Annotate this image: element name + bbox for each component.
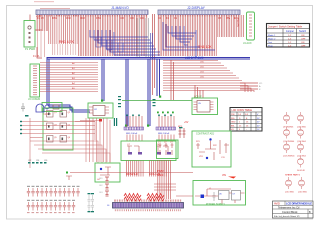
svg-text:LCD CONN TABLE: LCD CONN TABLE (232, 109, 253, 112)
net labels for stubs (259, 83, 262, 91)
svg-text:Q12 3904: Q12 3904 (297, 141, 307, 143)
annotation above frame (faint) (34, 1, 54, 2)
svg-text:RN3: RN3 (80, 17, 85, 20)
svg-text:OFF: OFF (301, 38, 306, 40)
connector P1 (top left, green) (24, 21, 35, 48)
resistor RP3 pair (left of contrast box) (179, 128, 186, 138)
wire (red horizontals into opto bank) (21, 122, 95, 138)
spare transistor Q13 (284, 141, 290, 153)
svg-text:Mode 1: Mode 1 (268, 35, 276, 37)
wire (red vertical between headers) (153, 14, 155, 95)
power indicator circuit (green box small, left) (157, 140, 179, 159)
svg-text:P1 PWR: P1 PWR (25, 47, 35, 51)
wire fan from U2 down to keypad interface (80, 118, 110, 162)
resistor network RN5 (purple bar) (124, 127, 144, 135)
capacitor C32 (213, 192, 216, 201)
wire (P1 to right) (30, 15, 42, 59)
svg-text:+12V: +12V (36, 15, 42, 18)
net labels on LCD fan (200, 62, 205, 79)
svg-text:J1-MAIN I/O: J1-MAIN I/O (111, 6, 129, 10)
data bus (blue nested routing left group) (90, 30, 160, 55)
svg-text:K1 RLY: K1 RLY (43, 113, 51, 116)
junction (bright red) (99, 119, 102, 122)
svg-text:SPARE PARTS: SPARE PARTS (285, 174, 300, 177)
bus risers to lower section (47, 57, 160, 126)
wires inside (195, 189, 245, 204)
electrolytic capacitors CE1-CE3 (stacked) (99, 177, 109, 196)
svg-text:POWER SUPPLY: POWER SUPPLY (206, 203, 225, 206)
data bus (blue nested routing right group) (163, 22, 215, 58)
capacitor ticks above RN fans (teal) (126, 115, 172, 117)
sparse wires left of J1 fan (38, 31, 45, 57)
net name labels on J3 bundle (72, 62, 75, 90)
svg-text:RN2: RN2 (66, 17, 71, 20)
svg-text:RN3 4.7K: RN3 4.7K (59, 40, 74, 44)
main horizontal bus wires (47, 57, 250, 59)
optocoupler bank U3 (green box 2x3 grid) (43, 108, 73, 150)
svg-text:J3 CON20: J3 CON20 (28, 97, 41, 101)
svg-text:KEYPAD: KEYPAD (237, 17, 240, 27)
wire fan from J2 area to LCD (horizontal red, staircase) (163, 61, 254, 93)
svg-text:File: lcd_drv.sch Sheet 1/1: File: lcd_drv.sch Sheet 1/1 (274, 215, 300, 218)
connector J3 (left, green 20-pin) (30, 64, 40, 97)
regulator U7 (232, 191, 241, 201)
svg-text:J2-DISPLAY: J2-DISPLAY (187, 6, 206, 10)
wire bundle from J3 (horizontal red lines) (40, 61, 98, 93)
svg-text:Q14 3904: Q14 3904 (297, 156, 307, 158)
svg-text:Prog: Prog (268, 44, 273, 47)
svg-text:LCD DRIVER MODULE: LCD DRIVER MODULE (286, 202, 312, 206)
svg-text:10K: 10K (140, 17, 145, 20)
svg-text:GND: GND (231, 122, 236, 124)
diode D4 (blue) (201, 195, 205, 199)
capacitor C20 (gray, left) (21, 103, 25, 112)
wire stubs right of LCD area (240, 83, 258, 89)
svg-text:Jumper / Switch Setting Table: Jumper / Switch Setting Table (268, 24, 303, 28)
wire risers into LCD module (171, 60, 203, 100)
svg-text:Q9 2N3906: Q9 2N3906 (283, 127, 294, 129)
keypad interface (green box bottom mid-left) (95, 163, 120, 182)
connector J1 header strip (36, 10, 148, 15)
gray bus lines (137, 18, 149, 57)
svg-text:10K: 10K (130, 17, 135, 20)
LCD pinout table (mid right) (230, 108, 262, 132)
svg-text:Q15 3906: Q15 3906 (285, 192, 295, 194)
svg-text:C24: C24 (36, 160, 39, 162)
jack J5 (blue circle symbol) (36, 104, 44, 112)
svg-text:ON: ON (301, 35, 305, 37)
svg-text:PIN: PIN (231, 114, 235, 116)
spare transistor Q15 (286, 177, 292, 189)
capacitor group C10-C12 (teal) (118, 96, 156, 107)
svg-text:OFF: OFF (301, 45, 306, 47)
svg-text:Q16 3906: Q16 3906 (298, 192, 308, 194)
decoupling capacitor row 1 (C1-C13) (27, 186, 80, 197)
connector J2 header strip (158, 10, 240, 15)
svg-text:Switch: Switch (299, 30, 307, 33)
spare transistor Q10 (298, 112, 304, 124)
svg-text:RS: RS (218, 17, 222, 20)
svg-text:Mode 2: Mode 2 (268, 38, 276, 40)
svg-text:Q11 2N3904: Q11 2N3904 (283, 141, 295, 143)
wire fan out of RN bars into driver box (127, 135, 174, 142)
contrast adjust circuit (green box) (192, 131, 231, 167)
wire bundle under J1 (vertical red fanout) (36, 15, 148, 56)
wire (green net) (122, 100, 192, 102)
svg-text:C26: C26 (44, 160, 47, 162)
power supply section (green box bottom right) (193, 181, 246, 207)
spare transistor Q16 (299, 177, 305, 189)
IC U2 (green box, mid-left bottom) (88, 103, 113, 118)
svg-text:SIG: SIG (231, 118, 235, 120)
svg-text:CE3: CE3 (99, 192, 103, 194)
pull-up resistor array rows (red zigzag) (124, 194, 164, 202)
pin labels below J6 (114, 209, 181, 211)
svg-text:F1 2A: F1 2A (33, 55, 40, 58)
connector J4 (top right, green) (247, 12, 255, 40)
wire staircase to lower boxes (30, 118, 110, 168)
wire bundles below driver box (126, 161, 167, 177)
IC U5 module (green box mid) (192, 98, 218, 115)
wire (red stub into power box) (176, 195, 193, 197)
svg-text:CE2: CE2 (99, 185, 103, 187)
pin number labels row J2 (158, 17, 238, 20)
wire bundle under J2 (vertical red fanout) (157, 15, 244, 56)
capacitor pair C16 (teal verticals) (114, 118, 117, 126)
svg-text:J4 AUX: J4 AUX (243, 41, 252, 45)
svg-text:Control Block: Control Block (282, 210, 298, 214)
svg-text:AVID: AVID (274, 202, 280, 206)
pin number labels row J1 (37, 17, 145, 20)
title block (273, 201, 314, 218)
relay K1 (green box small left) (42, 103, 62, 112)
svg-text:D6 4148: D6 4148 (297, 170, 305, 172)
jumper/switch setting table (top right) (267, 24, 310, 48)
label VIN (bright red with arrow) (222, 174, 236, 179)
resistor network RN6 (purple bar) (156, 127, 176, 135)
pin name row above J1 strip (40, 7, 70, 10)
capacitor C21 (teal) (25, 115, 29, 117)
capacitor ticks (teal, left ends) (20, 121, 22, 134)
driver stage (green box with transistors) (121, 141, 176, 161)
svg-text:ON: ON (301, 42, 305, 44)
svg-text:CONTRAST ADJ: CONTRAST ADJ (196, 133, 215, 136)
svg-text:+5V: +5V (184, 121, 189, 124)
spare transistor Q14 (298, 141, 304, 153)
svg-text:C22: C22 (28, 160, 31, 162)
pin labels above J6 (114, 200, 182, 202)
regulator U6 (219, 191, 230, 200)
bus entry loops (blue U shapes) (96, 33, 153, 59)
connector J6 (bottom edge strip) (107, 203, 184, 209)
capacitor row C22-C26 (teal cluster bottom left) (28, 162, 47, 164)
capacitor C15 (teal tick) (179, 127, 183, 128)
spare transistor Q9 (284, 112, 290, 124)
junction dots row (green) (157, 112, 174, 114)
decoupling capacitor row 2 (C14-C25) (27, 200, 75, 211)
svg-text:LCD DATA BUS: LCD DATA BUS (185, 56, 204, 60)
svg-text:VO: VO (259, 83, 262, 85)
svg-text:CE1: CE1 (99, 178, 103, 180)
svg-text:VIN: VIN (222, 174, 226, 177)
junction dots (green) (101, 96, 161, 127)
spare diode D6 (298, 156, 304, 168)
wire (red cross lines over PWR bundle) (154, 184, 176, 190)
diode D5 with junction (66, 172, 72, 181)
svg-text:Jumper: Jumper (286, 30, 294, 33)
svg-text:RN4: RN4 (96, 17, 101, 20)
svg-text:RN8 10K: RN8 10K (198, 45, 212, 49)
wire fan into RN bars (127, 116, 174, 127)
wire (long red net to power section) (70, 172, 193, 174)
svg-text:Test: Test (268, 41, 272, 44)
spare transistor Q11 (284, 127, 290, 139)
svg-text:10K: 10K (120, 17, 125, 20)
svg-text:Q13 2N3904: Q13 2N3904 (283, 156, 295, 158)
svg-text:Q10 3906: Q10 3906 (297, 127, 307, 129)
spare transistor Q12 (298, 127, 304, 139)
svg-text:Teleservers Inc Ctl: Teleservers Inc Ctl (278, 206, 300, 210)
value labels under capacitor row 2 (27, 211, 75, 214)
svg-text:GND: GND (157, 173, 163, 177)
svg-text:VO: VO (231, 129, 234, 131)
svg-text:LCD IF: LCD IF (194, 96, 202, 99)
wire bundle power rows (red vertical group with labels) (157, 160, 172, 199)
svg-text:RN1: RN1 (52, 17, 57, 20)
filter capacitors C27-C29 (column) (88, 193, 95, 212)
